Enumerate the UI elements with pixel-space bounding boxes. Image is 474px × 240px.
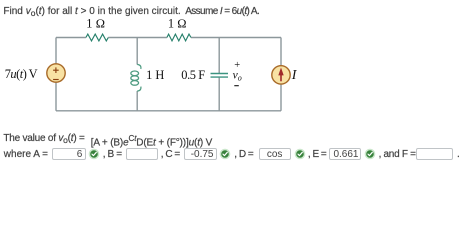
wire inductor branch above coil: [136, 38, 138, 65]
voltage source VS circle: [47, 64, 65, 82]
capacitor C1 plates: [211, 74, 229, 78]
check E: [362, 146, 378, 162]
svg-text:7u(t) V: 7u(t) V: [5, 67, 38, 81]
circuit schematic: [0, 0, 474, 187]
answer label B: [103, 149, 122, 160]
wire left branch above source: [55, 38, 57, 65]
svg-text:1 Ω: 1 Ω: [86, 17, 105, 31]
answer label A: [4, 149, 48, 160]
wire bottom rail: [56, 110, 281, 112]
wire capacitor branch below plates: [218, 78, 220, 111]
input box F: [416, 148, 453, 160]
svg-text:I: I: [291, 68, 298, 83]
svg-text:0.5 F: 0.5 F: [181, 68, 205, 82]
svg-text:vo: vo: [233, 70, 242, 83]
input box E: [329, 148, 361, 160]
wire capacitor branch above plates: [218, 38, 220, 74]
svg-text:1 H: 1 H: [146, 68, 164, 82]
answer label D: [234, 149, 253, 160]
problem statement text: [3, 6, 180, 19]
inductor L1 coil: [131, 64, 141, 91]
wire top rail middle segment: [108, 37, 167, 39]
wire right branch below current source: [280, 84, 282, 111]
trailing period: [457, 149, 460, 160]
resistor R2 1ohm zigzag: [167, 34, 191, 41]
svg-text:1 Ω: 1 Ω: [168, 17, 187, 31]
wire top rail right segment: [191, 37, 281, 39]
wire left branch below source: [55, 82, 57, 111]
wire inductor branch below coil: [136, 91, 138, 111]
check D: [292, 146, 308, 162]
input box D: [259, 148, 291, 160]
answer label C: [161, 149, 180, 160]
voltage source plus minus marks: [53, 67, 59, 79]
resistor R1 1ohm zigzag: [86, 34, 108, 41]
current source arrow: [280, 75, 282, 82]
answer label E: [308, 149, 326, 160]
input box B: [126, 148, 158, 160]
input box C: [184, 148, 217, 160]
check C: [217, 146, 233, 162]
input box A: [52, 148, 86, 160]
wire right branch above current source: [280, 38, 282, 66]
formula line: [3, 133, 84, 146]
check A: [86, 146, 102, 162]
answer label F: [379, 149, 416, 160]
wire top rail left segment: [56, 37, 86, 39]
current source IS circle: [272, 66, 290, 84]
